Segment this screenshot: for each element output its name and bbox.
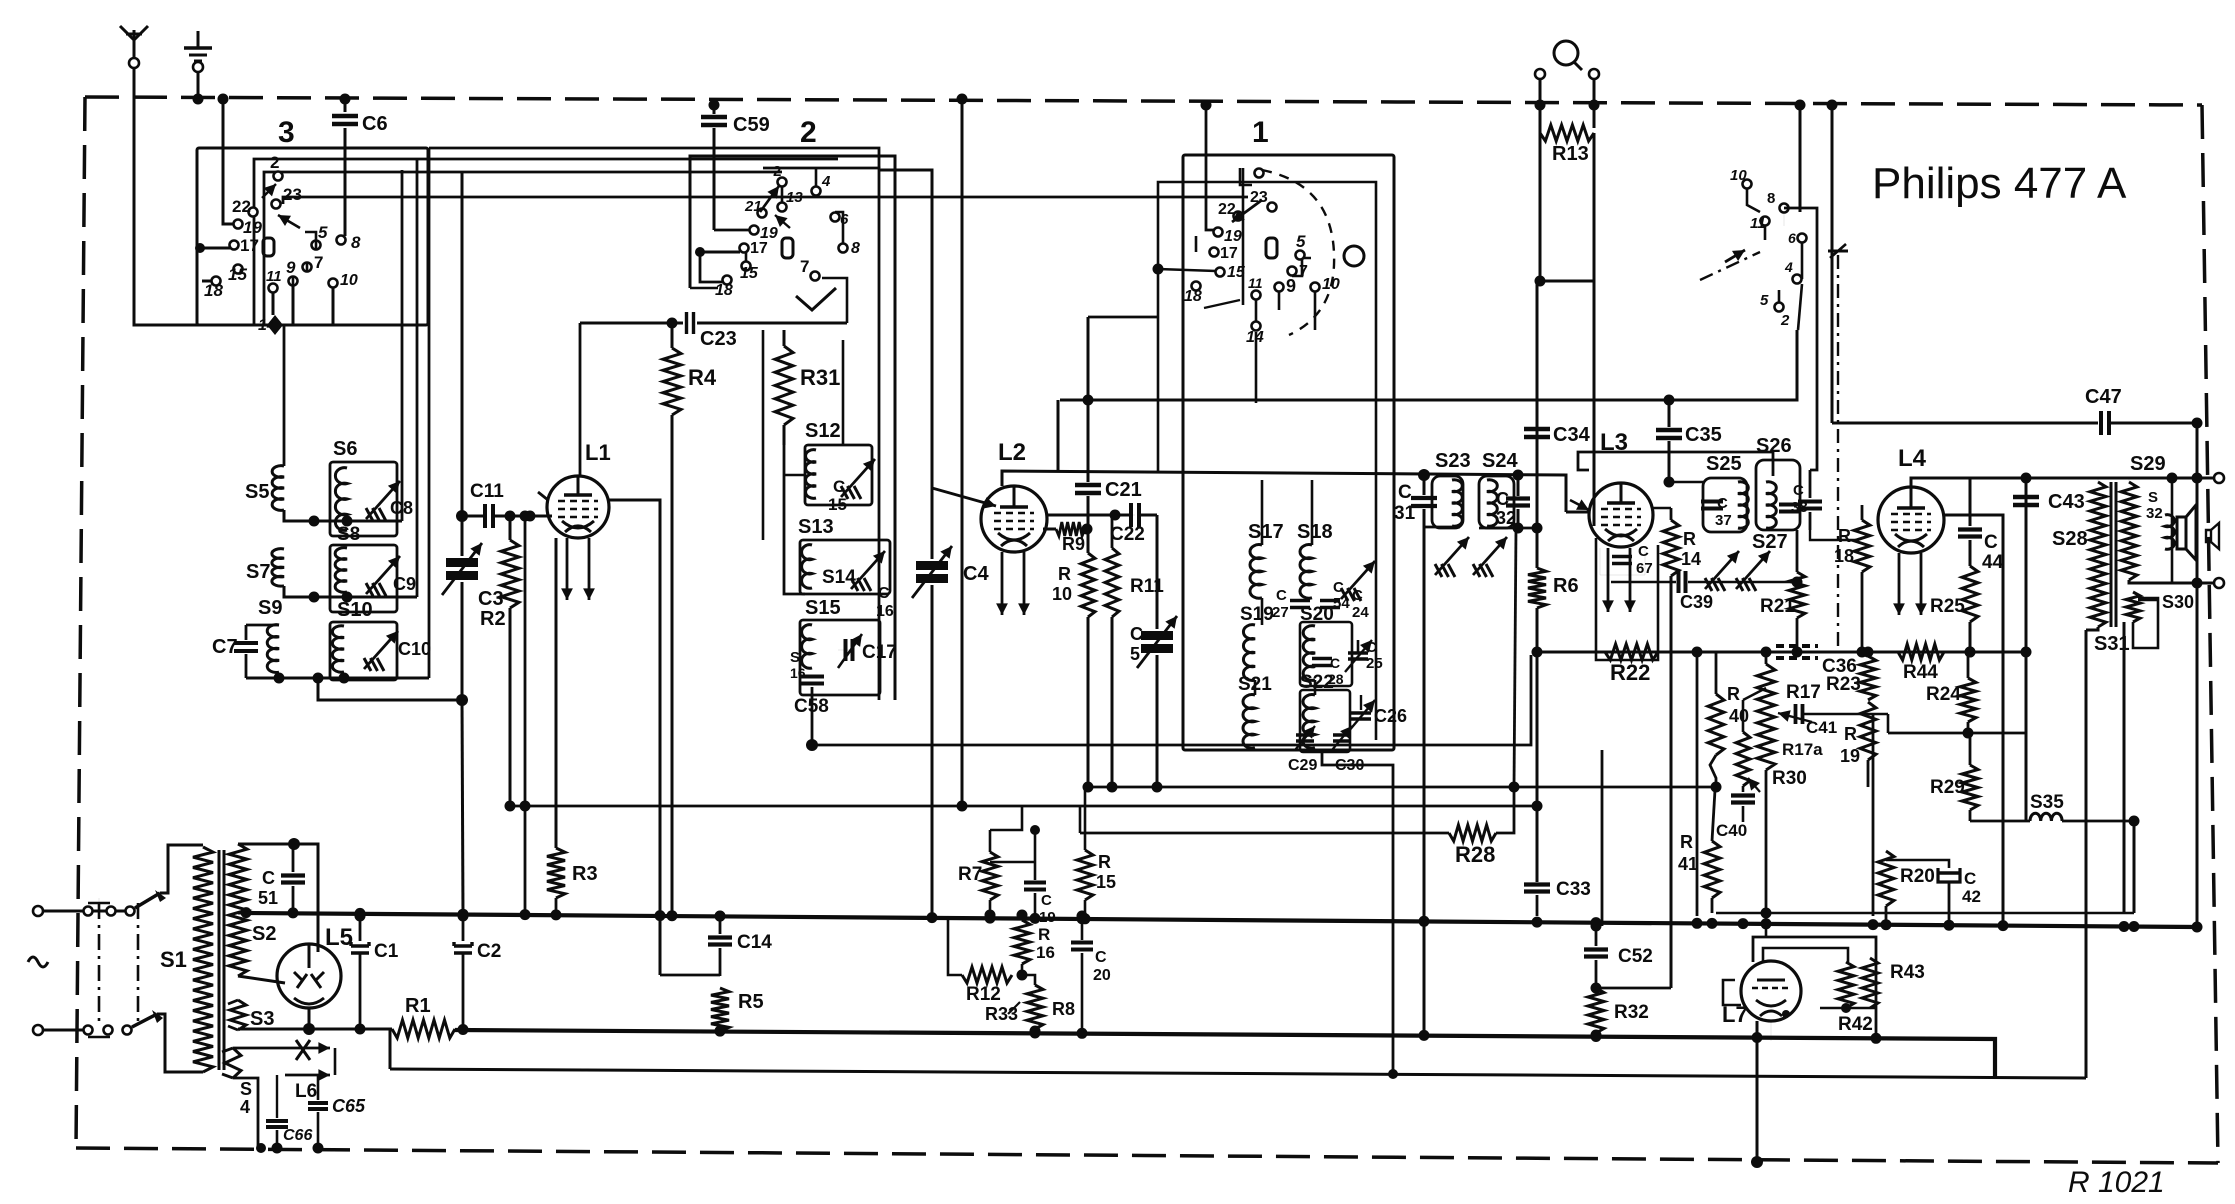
svg-text:S30: S30	[2162, 592, 2194, 612]
contact 15 (deck1)	[1216, 264, 1246, 281]
svg-text:C47: C47	[2085, 386, 2122, 408]
wire: L2 grid diag	[932, 488, 996, 509]
capacitor C14	[708, 911, 772, 977]
wire: y745 line	[812, 655, 1531, 745]
svg-text:R2: R2	[480, 608, 506, 630]
svg-text:S10: S10	[337, 599, 373, 621]
wire: bus y400 left drop	[1057, 400, 1060, 470]
wire: S28 top	[2098, 478, 2129, 482]
svg-text:C41: C41	[1806, 718, 1837, 737]
wire: deck1 nested b	[1242, 168, 1245, 305]
coil S24	[1482, 450, 1518, 526]
svg-text:23: 23	[283, 185, 302, 204]
capacitor C1	[351, 911, 399, 1035]
svg-text:C59: C59	[733, 114, 770, 136]
wire: deck3 nested loop a	[254, 159, 838, 325]
svg-text:2: 2	[270, 153, 279, 172]
tube L2	[981, 439, 1047, 552]
coil S20 box	[1300, 622, 1352, 686]
svg-text:16: 16	[1036, 943, 1055, 962]
svg-text:R 1021: R 1021	[2068, 1166, 2165, 1199]
trimmer S23 adj	[1435, 537, 1469, 577]
dial lamp L6	[285, 1040, 330, 1102]
wire: link y148	[429, 148, 879, 168]
contact 5 (deck1)	[1296, 232, 1307, 260]
coil S6	[333, 438, 357, 530]
node: L4 label	[1898, 445, 1927, 472]
svg-text:R32: R32	[1614, 1002, 1649, 1023]
svg-text:10: 10	[340, 272, 358, 289]
svg-text:19: 19	[1840, 746, 1860, 766]
capacitor C35	[1656, 395, 1722, 483]
contact 19 (deck1)	[1214, 228, 1242, 246]
svg-text:R: R	[1844, 724, 1857, 744]
wire: R14 drop	[1591, 590, 1672, 994]
wire: C34 branch	[1536, 281, 1539, 427]
heater arrows L2	[996, 552, 1030, 615]
wire: R18 bottom lead	[1861, 572, 1864, 652]
tube L4	[1878, 487, 1944, 553]
rotor mark (deck3)	[263, 238, 274, 256]
svg-text:6: 6	[1788, 230, 1796, 246]
wire: x2025 drop	[2025, 478, 2028, 821]
svg-text:C6: C6	[362, 113, 388, 135]
transformer S4 winding	[222, 1048, 252, 1117]
svg-text:C52: C52	[1618, 946, 1653, 967]
contact 17 (deck2)	[740, 240, 768, 257]
trimmer C17	[838, 634, 897, 668]
contact 17 (deck3)	[230, 236, 259, 255]
svg-text:C: C	[1330, 655, 1340, 671]
wire: lower line y1069	[390, 1029, 2086, 1078]
heater arrows L4	[1893, 553, 1927, 615]
contact 8 (deck3)	[337, 233, 362, 252]
svg-text:C4: C4	[963, 563, 989, 585]
svg-text:41: 41	[1678, 854, 1698, 874]
wire: main bus y1031 (heavy)	[238, 1029, 1995, 1078]
transformer S1 primary	[160, 847, 213, 1072]
heater arrows L3	[1602, 548, 1636, 612]
resistor R7	[958, 806, 1022, 921]
svg-text:15: 15	[828, 495, 847, 514]
svg-text:C26: C26	[1374, 706, 1407, 726]
svg-text:3: 3	[278, 116, 295, 149]
wire: deck4 dashdot link	[1700, 244, 1848, 648]
svg-text:1: 1	[1252, 116, 1269, 149]
svg-text:15: 15	[740, 265, 759, 282]
coil S8	[335, 524, 360, 592]
svg-text:C: C	[1130, 624, 1143, 644]
rotor dashed arc (deck1)	[1262, 170, 1334, 335]
wire: deck3 drop b	[416, 159, 419, 597]
tube L7	[1722, 961, 1801, 1027]
contact 9 (deck1)	[1275, 276, 1297, 296]
wire: box1 bottom drop	[1322, 752, 1398, 1079]
coil S18	[1297, 521, 1333, 598]
contact 18 (deck3)	[204, 277, 223, 301]
transformer core	[2111, 482, 2116, 627]
svg-text:5: 5	[1296, 232, 1306, 251]
transformer S28 primary	[2052, 482, 2106, 627]
coil S15 box	[800, 620, 880, 695]
capacitor C37	[1701, 495, 1732, 529]
resistor R6	[1528, 568, 1579, 882]
resistor R43	[1862, 958, 1925, 1008]
svg-text:R3: R3	[572, 863, 598, 885]
speaker icon small	[2206, 523, 2219, 549]
capacitor C47	[2085, 386, 2203, 435]
svg-text:18: 18	[204, 281, 223, 300]
svg-text:R21: R21	[1760, 596, 1795, 617]
coil S26	[1756, 435, 1792, 528]
headphone jack symbol	[1554, 41, 1582, 70]
svg-text:C66: C66	[283, 1127, 312, 1144]
wire: deck4 rotor arrow	[1725, 250, 1745, 262]
svg-text:R4: R4	[688, 365, 717, 390]
svg-text:R28: R28	[1455, 842, 1495, 867]
wire: antenna lead	[134, 68, 281, 331]
wire: L3 kath box	[1596, 538, 1658, 660]
wire: R12 left drop	[948, 916, 962, 975]
wire: IF1 bottom	[1424, 527, 1460, 1035]
coil S24 box	[1479, 476, 1514, 528]
resistor R19	[1840, 702, 1876, 787]
wire: C47 line	[1832, 422, 2098, 425]
capacitor C32	[1496, 470, 1530, 529]
svg-text:C: C	[1496, 489, 1509, 509]
capacitor C11	[456, 481, 548, 528]
svg-text:R: R	[1098, 852, 1111, 872]
resistor R15	[1077, 787, 1116, 916]
svg-text:2: 2	[800, 116, 817, 149]
coil S22	[1300, 672, 1334, 748]
switch blade bottom	[132, 1010, 163, 1027]
variable capacitor C3	[442, 521, 504, 700]
svg-text:9: 9	[286, 258, 296, 277]
resistor R10	[1052, 553, 1095, 787]
coil S15	[802, 597, 841, 668]
wire: y733 link	[1888, 714, 2026, 733]
contact 23 (deck1)	[1250, 189, 1277, 212]
capacitor C36 gang dashes	[1775, 646, 1857, 677]
coil S16	[790, 649, 806, 681]
resistor R13	[1540, 125, 1594, 281]
coil S25	[1706, 453, 1748, 528]
wire: deck3 link to box2	[283, 197, 1248, 204]
wire: y833 line	[1080, 528, 1520, 833]
contact 10 (deck4)	[1730, 167, 1752, 189]
resistor R4	[663, 318, 717, 914]
transformer S1 core	[219, 850, 224, 1070]
wire: jack left lead	[1535, 79, 1546, 128]
svg-text:R: R	[1683, 529, 1696, 549]
svg-text:C58: C58	[794, 696, 829, 717]
contact 19 (deck2)	[750, 225, 778, 242]
coil S25 box	[1703, 478, 1747, 532]
coil S5	[245, 325, 284, 510]
svg-text:S8: S8	[337, 524, 360, 545]
resistor R42	[1820, 962, 1876, 1035]
variable capacitor C5	[1130, 515, 1177, 793]
svg-text:C17: C17	[862, 642, 897, 663]
wire: top border (dashed)	[85, 97, 2202, 105]
wire: deck1 nested a	[1153, 182, 1377, 740]
wire: right border (dashed)	[2202, 105, 2218, 1163]
dial lamp circle (deck1)	[1344, 246, 1364, 266]
capacitor C28	[1312, 655, 1344, 687]
svg-text:10: 10	[1730, 167, 1747, 184]
wire: S7-S8 bottom	[284, 586, 417, 603]
svg-text:7: 7	[1299, 263, 1308, 280]
contact 22 (deck1)	[1218, 201, 1243, 221]
svg-text:C1: C1	[374, 941, 399, 962]
svg-text:R20: R20	[1900, 866, 1935, 887]
resistor R2	[480, 511, 519, 812]
svg-text:18: 18	[715, 282, 733, 299]
trimmer S25 adj	[1705, 551, 1739, 591]
ground symbol	[184, 31, 212, 72]
variable capacitor C4	[879, 170, 989, 916]
output terminal top	[2214, 473, 2224, 483]
wire: S2 bottom to L5	[238, 976, 285, 983]
wire: S4 to lamp	[233, 1048, 285, 1148]
capacitor C6	[332, 94, 388, 237]
svg-text:R: R	[1038, 925, 1050, 944]
contact 18 (deck1)	[1184, 282, 1202, 306]
svg-text:C: C	[833, 477, 845, 496]
svg-text:S18: S18	[1297, 521, 1333, 543]
svg-text:C34: C34	[1553, 424, 1591, 446]
contact 10 (deck1)	[1311, 276, 1340, 293]
trimmer C9	[366, 556, 416, 596]
svg-text:S24: S24	[1482, 450, 1518, 472]
wire: L1 grid stub	[538, 492, 552, 516]
svg-text:C: C	[1352, 587, 1363, 604]
wire: coil drops box1	[1255, 480, 1315, 695]
wire: mains top to S1	[160, 845, 203, 893]
capacitor C66	[266, 1075, 312, 1154]
svg-text:S27: S27	[1752, 531, 1788, 553]
resistor R17	[1757, 652, 1821, 770]
contact 4 (deck4)	[1784, 259, 1802, 284]
svg-text:L4: L4	[1898, 445, 1927, 472]
svg-text:C: C	[878, 585, 890, 602]
capacitor C40	[1716, 786, 1755, 840]
svg-text:44: 44	[1982, 552, 2004, 573]
wire: IF1 top line	[1394, 474, 1566, 476]
wire: y913 line	[1716, 908, 2134, 938]
wire: IF2 top	[1664, 477, 1704, 488]
wire: det drop	[1601, 750, 1604, 926]
wire: S35 drop	[2133, 821, 2136, 913]
switch S contacts top	[84, 907, 135, 916]
coil S35	[1970, 792, 2140, 827]
svg-text:L6: L6	[295, 1081, 317, 1102]
coil S10 box	[330, 622, 397, 680]
contact 4 (deck2)	[812, 173, 832, 196]
wire: L7 bottom leads	[1771, 1010, 1790, 1041]
svg-text:C39: C39	[1680, 592, 1713, 612]
resistor R41	[1678, 790, 1720, 913]
capacitor C33	[1524, 879, 1591, 916]
capacitor C51	[258, 849, 305, 911]
svg-text:4: 4	[1784, 259, 1793, 275]
wire: misc right verticals	[1697, 652, 1873, 916]
contact 19 (deck3)	[234, 218, 263, 237]
contact 15 (deck3)	[228, 265, 247, 285]
coil S12 box	[805, 445, 872, 505]
wire: S2 top lead	[238, 838, 300, 850]
svg-text:7: 7	[800, 257, 809, 276]
switch deck S-3 box	[197, 148, 428, 325]
wire: S31 loop	[2133, 598, 2158, 648]
capacitor C31	[1394, 469, 1437, 527]
capacitor C43	[2013, 478, 2085, 821]
resistor R23	[1826, 652, 1876, 700]
trimmer C10	[364, 631, 431, 671]
contact 8 (deck4)	[1767, 190, 1789, 213]
capacitor C34	[1524, 424, 1591, 446]
svg-text:S13: S13	[798, 516, 834, 538]
svg-text:L1: L1	[585, 440, 611, 465]
svg-text:40: 40	[1729, 706, 1749, 726]
wire: L5 cathode	[303, 1008, 315, 1035]
resistor R16	[1014, 910, 1055, 976]
svg-text:R9: R9	[1062, 534, 1085, 554]
node: drawing number R1021	[2068, 1166, 2165, 1199]
svg-text:42: 42	[1962, 887, 1981, 906]
svg-text:R24: R24	[1926, 684, 1961, 705]
coil S13 box	[800, 540, 890, 594]
svg-text:C3: C3	[478, 588, 504, 610]
svg-text:37: 37	[1715, 512, 1732, 529]
speaker	[2177, 505, 2196, 560]
wire: bus y400	[1060, 330, 1797, 400]
wire: deck2 inner wires	[695, 168, 847, 323]
wire: S28 bottom drop	[2086, 627, 2098, 630]
switch deck S-1 box	[1183, 155, 1394, 750]
svg-text:R8: R8	[1052, 999, 1075, 1019]
svg-text:5: 5	[1760, 292, 1769, 309]
svg-text:S: S	[790, 649, 800, 666]
wire: deck3 drop c	[428, 148, 431, 678]
capacitor C59	[701, 100, 770, 231]
svg-text:S19: S19	[1240, 604, 1274, 625]
resistor R3	[547, 848, 598, 915]
wire: lamp return	[256, 1048, 335, 1153]
tube L3	[1589, 429, 1653, 547]
svg-text:14: 14	[1246, 329, 1264, 346]
svg-text:C21: C21	[1105, 479, 1142, 501]
resistor R31	[775, 330, 840, 445]
svg-text:S14: S14	[822, 567, 856, 588]
trimmer C16	[851, 551, 894, 620]
node R33 label	[985, 1002, 1020, 1024]
contact 14 (deck1)	[1246, 322, 1264, 347]
wire: bottom border (dashed)	[76, 1148, 2218, 1163]
capacitor C2	[454, 911, 501, 1030]
svg-text:C23: C23	[700, 328, 737, 350]
resistor R5	[711, 988, 764, 1037]
contact 23 (deck3)	[272, 185, 302, 209]
wire: deck3 nested loop b	[264, 172, 782, 325]
svg-text:R44: R44	[1903, 662, 1938, 683]
trimmer C8	[366, 481, 413, 521]
svg-text:S25: S25	[1706, 453, 1742, 475]
coil S20	[1300, 604, 1334, 680]
wire: IF2 sec loop	[1810, 530, 1856, 540]
svg-text:22: 22	[232, 197, 251, 216]
contact 5 (deck4)	[1760, 292, 1784, 312]
svg-text:L5: L5	[325, 924, 353, 951]
svg-text:S7: S7	[246, 561, 270, 583]
svg-text:R31: R31	[800, 365, 840, 390]
coil S26 box	[1756, 460, 1800, 530]
svg-text:22: 22	[1218, 201, 1236, 218]
svg-text:C29: C29	[1288, 757, 1317, 774]
svg-text:19: 19	[243, 218, 262, 237]
svg-text:R7: R7	[958, 864, 982, 885]
wire: deck4 wires	[1747, 189, 1832, 423]
svg-text:6: 6	[840, 211, 849, 228]
svg-text:C: C	[1276, 587, 1287, 604]
svg-text:S1: S1	[160, 947, 187, 972]
jack terminal left	[1535, 69, 1545, 79]
svg-text:S2: S2	[252, 923, 276, 945]
capacitor C27	[1272, 587, 1310, 621]
contact 2 (deck4)	[1780, 312, 1790, 329]
svg-text:15: 15	[228, 265, 247, 284]
antenna terminal	[120, 26, 148, 68]
trimmer C24	[1341, 561, 1375, 621]
wire: L1 anode lead	[608, 500, 660, 975]
svg-text:11: 11	[1248, 275, 1263, 291]
switch blade top	[135, 890, 166, 908]
transformer S3 winding	[228, 1000, 274, 1030]
capacitor C21	[1075, 317, 1158, 553]
svg-text:C: C	[1793, 482, 1804, 499]
svg-text:10: 10	[1052, 584, 1072, 604]
resistor R18	[1834, 505, 1870, 590]
svg-text:C: C	[1964, 869, 1976, 888]
capacitor C7	[212, 625, 258, 678]
capacitor C38b	[1798, 470, 1822, 530]
wire: L3 grid entry	[1566, 499, 1589, 512]
svg-text:31: 31	[1394, 503, 1416, 524]
wire: S12-S13 link	[784, 445, 805, 594]
svg-text:R30: R30	[1772, 768, 1807, 789]
svg-text:C: C	[1041, 892, 1052, 909]
coil S13	[798, 516, 834, 588]
contact 10 (deck3)	[329, 272, 358, 289]
mains terminal top	[33, 906, 43, 916]
wire: jack right lead	[1589, 79, 1600, 128]
capacitor C58	[794, 677, 829, 752]
svg-text:R: R	[1838, 526, 1851, 546]
coil S22 box	[1300, 690, 1350, 752]
svg-text:7: 7	[314, 253, 323, 272]
svg-text:C35: C35	[1685, 424, 1722, 446]
node: title Philips 477 A	[1872, 159, 2127, 208]
wire: deck3 contact stubs	[293, 232, 316, 286]
wire: L2 grid top line	[1002, 471, 1566, 512]
wire: L7 plate drop	[1751, 1021, 1763, 1168]
resistor R40	[1708, 652, 1749, 793]
contact 2 (deck2)	[773, 163, 787, 187]
wire: mains switch link bar	[88, 898, 110, 1037]
transformer S29 secondary	[2121, 453, 2166, 580]
wire: mains bottom to S1	[157, 1014, 203, 1072]
